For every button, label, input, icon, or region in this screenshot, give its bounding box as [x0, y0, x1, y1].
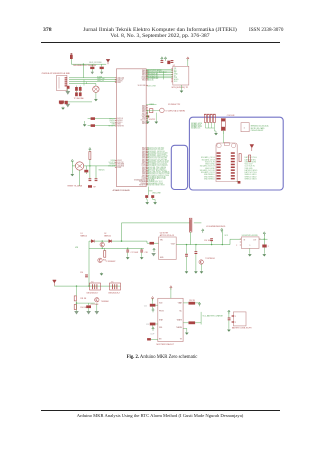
ferrite at U4 VIN: [150, 242, 155, 245]
svg-text:STAT: STAT: [159, 319, 163, 322]
ground under C18: [140, 256, 143, 259]
svg-text:C22: C22: [144, 305, 147, 307]
grounds under U5: [248, 253, 251, 256]
svg-text:MBR120: MBR120: [104, 235, 111, 237]
ground under C17: [126, 256, 129, 259]
svg-text:VDDCORE: VDDCORE: [138, 85, 146, 87]
capacitor C-xtal1: [161, 60, 164, 63]
svg-text:T2 FDN340P: T2 FDN340P: [106, 261, 117, 263]
pin labels left of U1 SWD: [108, 118, 116, 167]
svg-text:VBATS: VBATS: [177, 319, 182, 322]
capacitor C15: [262, 245, 266, 248]
svg-text:TP GND PAD: TP GND PAD: [74, 97, 85, 100]
svg-text:XOUT32: XOUT32: [117, 162, 123, 164]
wire USB D+: [69, 81, 117, 83]
svg-text:RESET TS-1187A: RESET TS-1187A: [68, 184, 83, 187]
svg-text:PA04 A5: PA04 A5: [147, 79, 154, 82]
svg-text:DMG2305UX-7: DMG2305UX-7: [108, 293, 120, 295]
wire stat: [183, 322, 201, 324]
ground under T3: [200, 270, 203, 273]
ground gndpad: [65, 104, 70, 108]
svg-text:VBUS_FILTERED: VBUS_FILTERED: [89, 62, 103, 64]
svg-text:GND: GND: [117, 124, 121, 126]
varistor cluster VR1: [75, 87, 78, 91]
wires U1 bottom: [147, 187, 155, 202]
svg-text:VOUT: VOUT: [171, 243, 175, 245]
resistor R-prog: [189, 302, 196, 305]
junction U5 out: [264, 239, 265, 240]
power arrow above reset: [71, 159, 73, 163]
svg-text:1: 1: [249, 245, 251, 247]
wire 3v3 out rail: [176, 244, 230, 246]
ground near U4: [151, 253, 156, 256]
wires reset: [72, 160, 116, 187]
ground X1 shield: [65, 91, 70, 95]
IC U2 flash body: [173, 66, 189, 85]
wire circle to rail2: [101, 241, 103, 248]
diode D1: [91, 240, 94, 243]
svg-text:VCC: VCC: [225, 235, 229, 237]
svg-text:C20: C20: [80, 272, 83, 274]
frame B (blue rounded box SD): [189, 117, 283, 190]
resistor R-cd: [239, 154, 241, 162]
connector J1 battery body: [233, 312, 246, 326]
svg-text:10UF: 10UF: [150, 333, 154, 335]
IC U1 pin names left column: [117, 77, 125, 169]
varistor VR3: [75, 92, 78, 96]
IC U6 charger body: [158, 298, 183, 341]
svg-text:TE: TE: [180, 339, 182, 341]
capacitor C-batt3: [228, 318, 231, 321]
svg-text:PUSH-PUSH 8P: PUSH-PUSH 8P: [251, 130, 264, 132]
svg-text:SWCLK: SWCLK: [99, 170, 106, 172]
svg-text:BATTERY CONN JST-PH: BATTERY CONN JST-PH: [232, 327, 252, 330]
svg-text:MCP73831T-2ACI/OT: MCP73831T-2ACI/OT: [157, 343, 175, 346]
ground SWD cluster: [83, 123, 86, 126]
journal header line 1: [60, 28, 260, 34]
capacitor C-xtal2: [171, 60, 174, 63]
SD pin labels left: [200, 156, 216, 180]
resistor R-sd1: [204, 115, 206, 123]
wire left rail down: [88, 241, 90, 286]
capacitor C-reset: [89, 178, 92, 181]
inductor L1 on rail: [189, 218, 192, 232]
svg-text:C21 100N: C21 100N: [91, 304, 99, 306]
J1 pin names: [235, 316, 236, 324]
svg-text:T4: T4: [91, 281, 93, 283]
svg-text:U5 MIC5219-3.3YM5: U5 MIC5219-3.3YM5: [242, 235, 258, 237]
net arrow XOUT32: [145, 115, 149, 117]
SD card notch: [224, 142, 229, 145]
svg-text:PA14: PA14: [142, 147, 146, 150]
IC U2 pin stubs left: [171, 69, 173, 82]
svg-text:DMG2305UX-7: DMG2305UX-7: [87, 293, 99, 295]
ground under test point: [94, 98, 97, 101]
transistor T3: [199, 260, 203, 264]
resistor R-sd2: [207, 115, 209, 123]
left pin parts U6: [150, 304, 156, 307]
junction dots: [76, 240, 103, 286]
svg-text:PROG: PROG: [159, 311, 164, 313]
wire fuse to rail: [70, 59, 72, 64]
ground battery divider 2: [86, 311, 91, 315]
capacitor C-osc: [150, 109, 153, 113]
wire X1 shield: [67, 89, 69, 91]
ground above crystal caps: [161, 57, 163, 61]
SD pull-up resistor labels: [191, 122, 203, 130]
connector X1 body: [57, 75, 68, 90]
capacitor C-reset2: [95, 178, 98, 181]
test point TP (circle): [93, 86, 99, 92]
ground osc 2: [155, 121, 158, 124]
power arrow VUSB above U6: [170, 286, 172, 290]
wire rail to U5: [230, 234, 268, 245]
svg-text:XOUT32: XOUT32: [149, 119, 156, 121]
svg-text:C23: C23: [146, 324, 149, 326]
capacitor C-out2: [195, 251, 198, 254]
capacitor C18: [140, 250, 143, 253]
wire gndpad: [64, 101, 92, 103]
capacitor C-out1: [185, 254, 188, 257]
header rule: [41, 41, 280, 44]
svg-text:ATSAMD21G18A-MU: ATSAMD21G18A-MU: [113, 189, 131, 192]
svg-text:SHIELD GND3: SHIELD GND3: [245, 179, 257, 181]
svg-text:1: 1: [235, 316, 236, 318]
svg-text:U2: U2: [173, 65, 175, 67]
IC U2 pin names: [174, 68, 179, 83]
svg-text:HOLD: HOLD: [174, 79, 179, 81]
svg-text:C18: C18: [145, 252, 148, 254]
IC U5 body: [241, 237, 259, 249]
svg-text:SWDIO: SWDIO: [117, 120, 123, 122]
ground under U2: [180, 90, 183, 93]
wire 5v rail mid: [89, 241, 159, 243]
resistor top caps: [204, 113, 216, 115]
pin labels right of U1 top: [147, 69, 167, 87]
power arrow above C15: [263, 232, 265, 236]
svg-text:RESETN: RESETN: [139, 184, 146, 186]
resistor R-sd3: [210, 115, 212, 123]
svg-text:DO: DO: [174, 70, 177, 72]
journal header line 2: [60, 34, 260, 40]
junction battery divider: [76, 302, 77, 303]
ground under C15: [263, 253, 266, 256]
varistor VR4: [79, 92, 82, 96]
wires below resistors: [205, 123, 214, 132]
junction reset: [89, 165, 90, 166]
wire VBUS filtered: [71, 64, 106, 78]
capacitor C-up above rail: [210, 238, 213, 241]
junction rail2: [102, 240, 129, 249]
IC U5 pin stubs: [240, 239, 261, 245]
svg-text:CS: CS: [174, 68, 176, 70]
crystal Y1: [167, 61, 170, 64]
component right of reset: [84, 170, 88, 173]
wires U6 left: [151, 299, 158, 340]
svg-text:RESETN: RESETN: [117, 125, 124, 127]
varistor VR2: [79, 87, 82, 91]
mosfet T5: [110, 283, 121, 290]
svg-text:Y2 CM9V-T1A 32.768KHZ: Y2 CM9V-T1A 32.768KHZ: [165, 109, 185, 112]
wires oscillator: [146, 104, 159, 120]
junctions on out rail: [186, 244, 187, 245]
svg-text:L1 BLM18KZ601SN1D: L1 BLM18KZ601SN1D: [206, 226, 226, 228]
wire test point to gnd: [95, 84, 97, 98]
power arrow right of U6: [198, 302, 200, 306]
resistor R-reset pullup: [89, 152, 91, 160]
card detect blob: [238, 181, 241, 184]
svg-text:R12 2K: R12 2K: [189, 300, 196, 302]
ground left of reset: [71, 173, 74, 176]
wire vertical U2: [162, 72, 164, 79]
ground under C-batt3: [227, 329, 230, 332]
ground under C-tp: [61, 107, 64, 110]
svg-text:VIN: VIN: [75, 247, 79, 249]
svg-text:32.768KHZ 7PF: 32.768KHZ 7PF: [168, 104, 180, 106]
resistor R-swclk: [91, 117, 95, 120]
svg-text:USB_DP: USB_DP: [97, 80, 105, 82]
vertical wire vbatt right: [200, 312, 202, 325]
svg-text:OUT: OUT: [253, 239, 256, 241]
svg-text:VCC_BATTERY_CHARGE: VCC_BATTERY_CHARGE: [203, 315, 224, 318]
svg-text:XIN32: XIN32: [117, 160, 122, 162]
svg-text:2: 2: [235, 322, 236, 324]
svg-text:VDDCORE: VDDCORE: [147, 85, 157, 87]
wire battery rail: [54, 285, 120, 287]
power arrow above R-reset: [89, 148, 91, 152]
svg-text:VDDCORE: VDDCORE: [152, 192, 161, 194]
svg-text:2: 2: [268, 246, 269, 248]
ground battery divider 3: [95, 311, 100, 315]
svg-text:VUSB: VUSB: [97, 76, 103, 78]
svg-text:WP: WP: [174, 72, 177, 74]
antenna VBATT symbol: [53, 280, 57, 286]
U4 pin names: [160, 240, 175, 260]
svg-text:VDD: VDD: [159, 303, 163, 305]
footer text: [40, 414, 280, 419]
wire cap to rail: [222, 131, 224, 135]
svg-text:1: 1: [244, 128, 246, 130]
ground battery divider 1: [74, 311, 79, 315]
ISSN: [249, 28, 283, 33]
wire U2 bottom: [181, 85, 183, 90]
svg-text:T6 BSS84: T6 BSS84: [101, 301, 109, 303]
op IC U1 SAMD21 body: [117, 69, 147, 187]
resistor R-sd4: [213, 115, 215, 123]
ground under U6: [185, 332, 188, 335]
wire flash VCC: [187, 59, 189, 66]
svg-text:GND: GND: [174, 73, 178, 75]
ground under T2: [100, 272, 103, 275]
ground under C-esd1: [91, 72, 94, 74]
svg-text:AP7215-33YG-13: AP7215-33YG-13: [160, 234, 174, 237]
capacitor C-esd2: [100, 67, 104, 69]
resistor R-cd2: [249, 155, 251, 162]
svg-text:ZX62R-B-5P USB MICRO-B SMD: ZX62R-B-5P USB MICRO-B SMD: [42, 73, 71, 75]
IC U1 pin stubs left: [115, 78, 117, 168]
svg-text:IN: IN: [244, 239, 246, 241]
svg-text:GND SHIELD: GND SHIELD: [204, 179, 216, 181]
svg-text:R14 1M: R14 1M: [80, 307, 87, 309]
wire card bottom stub: [223, 131, 237, 182]
transistor T6: [95, 298, 99, 302]
wire 3v3 rail top: [122, 222, 202, 224]
svg-text:T5: T5: [111, 281, 113, 283]
svg-text:T3 NTR4101: T3 NTR4101: [205, 258, 215, 260]
diode D2: [109, 240, 112, 243]
resistor R-meas vertical: [104, 251, 106, 258]
svg-text:R13: R13: [103, 260, 106, 262]
power arrow above F1: [70, 53, 72, 54]
resistor R11 top: [74, 296, 76, 301]
SD connector pins right: [231, 152, 235, 179]
ground under C-esd2: [100, 72, 103, 74]
svg-text:2: 2: [236, 245, 237, 247]
svg-text:CLK: CLK: [174, 77, 178, 79]
resistor R11b bottom: [74, 305, 76, 310]
svg-text:VBAT: VBAT: [178, 302, 182, 305]
SD connector pins left: [217, 152, 221, 179]
connector J2 SD card outline: [216, 143, 237, 182]
svg-text:SWCLK: SWCLK: [117, 118, 124, 120]
stat led R: [189, 321, 196, 324]
power arrows 3v3: [202, 229, 204, 233]
button S1 reset: [75, 162, 83, 170]
wire rail2 power: [89, 247, 144, 249]
IC U3 level shifter: [241, 123, 249, 132]
mosfet T4: [90, 283, 101, 290]
svg-text:VIN: VIN: [160, 240, 164, 242]
capacitor C17: [126, 250, 129, 253]
figure caption: [62, 356, 262, 361]
U3 part labels: [251, 124, 270, 132]
junction x122: [121, 240, 122, 241]
wire vcc vertical x122: [121, 223, 123, 241]
wire USB ID: [69, 78, 117, 84]
shield pin blob X1: [67, 86, 70, 89]
capacitor C-esd1: [90, 67, 94, 69]
IC U4 regulator body: [159, 237, 177, 259]
wires U6 right top: [183, 303, 199, 304]
page number: [43, 28, 52, 34]
svg-text:NC: NC: [179, 311, 182, 313]
power symbol near U4: [153, 248, 155, 252]
svg-text:C17 10UF: C17 10UF: [131, 252, 139, 254]
wires varistors: [76, 80, 86, 93]
capacitor C-div: [86, 305, 91, 308]
antenna symbol SD: [250, 145, 254, 152]
capacitor C-gndpad: [59, 101, 64, 104]
J1 pins: [232, 315, 235, 316]
resistor R-swdio: [91, 124, 95, 127]
power arrow flash VCC: [187, 57, 189, 61]
wires SWD cluster: [85, 119, 115, 126]
capacitor C-sd bulk: [221, 119, 225, 131]
wire USB D-: [69, 79, 117, 81]
fuse F1: [70, 55, 73, 59]
svg-text:GND: GND: [160, 257, 164, 259]
svg-text:TS?: TS?: [93, 186, 96, 188]
svg-text:DI: DI: [174, 75, 176, 77]
ground osc 1: [146, 121, 149, 124]
wires U1 to U2: [146, 69, 173, 78]
capacitor C-tp pair: [60, 101, 63, 104]
IC U1 pin names right column: [134, 69, 147, 186]
capacitor pair under U1: [145, 195, 148, 198]
SD card top circles: [217, 143, 221, 147]
svg-text:RESETN RESET RST: RESETN RESET RST: [147, 184, 166, 186]
ground under U1 caps: [146, 201, 149, 204]
svg-text:VDDIO: VDDIO: [117, 122, 123, 124]
svg-text:R11 1M: R11 1M: [80, 298, 86, 300]
power arrow U6 vin: [151, 297, 153, 301]
wire from top rail down x222: [221, 230, 223, 244]
power arrow VUSB: [106, 59, 110, 64]
svg-text:C14 10UF: C14 10UF: [204, 240, 212, 242]
svg-text:PB00: PB00: [117, 167, 121, 169]
diode D-reset: [88, 185, 92, 188]
footer rule: [41, 409, 280, 412]
svg-text:THERM: THERM: [176, 327, 182, 329]
wire battery divider: [77, 286, 97, 311]
wires ESD cluster: [92, 64, 101, 72]
grounds under out caps: [185, 270, 188, 273]
frame A (blue rounded box): [171, 145, 187, 189]
SD pin labels right: [245, 156, 258, 180]
ground under U1 caps 2: [154, 201, 157, 204]
transistor T-power circle: [100, 242, 104, 246]
pin labels right of U1 dense block: [147, 147, 170, 187]
U6 pin names: [159, 302, 183, 341]
svg-text:MBR120: MBR120: [81, 235, 88, 237]
svg-text:PA06: PA06: [142, 104, 146, 107]
svg-text:VSS: VSS: [159, 327, 162, 329]
oscillator Y2 circle: [160, 108, 165, 113]
svg-text:C16 10UF: C16 10UF: [227, 115, 235, 117]
svg-text:EN: EN: [159, 339, 162, 341]
ground under SD pullups: [214, 132, 217, 135]
transistor T2: [98, 258, 102, 262]
capacitor C-vin: [85, 275, 88, 278]
svg-text:W25Q16JVUXIQ TR: W25Q16JVUXIQ TR: [172, 87, 189, 89]
power arrow right batt: [228, 310, 230, 314]
wires caps to rail2: [105, 248, 142, 256]
IC U1 pin stubs right: [146, 70, 148, 184]
svg-text:PA00: PA00: [142, 69, 146, 72]
svg-text:VCC: VCC: [174, 81, 178, 83]
